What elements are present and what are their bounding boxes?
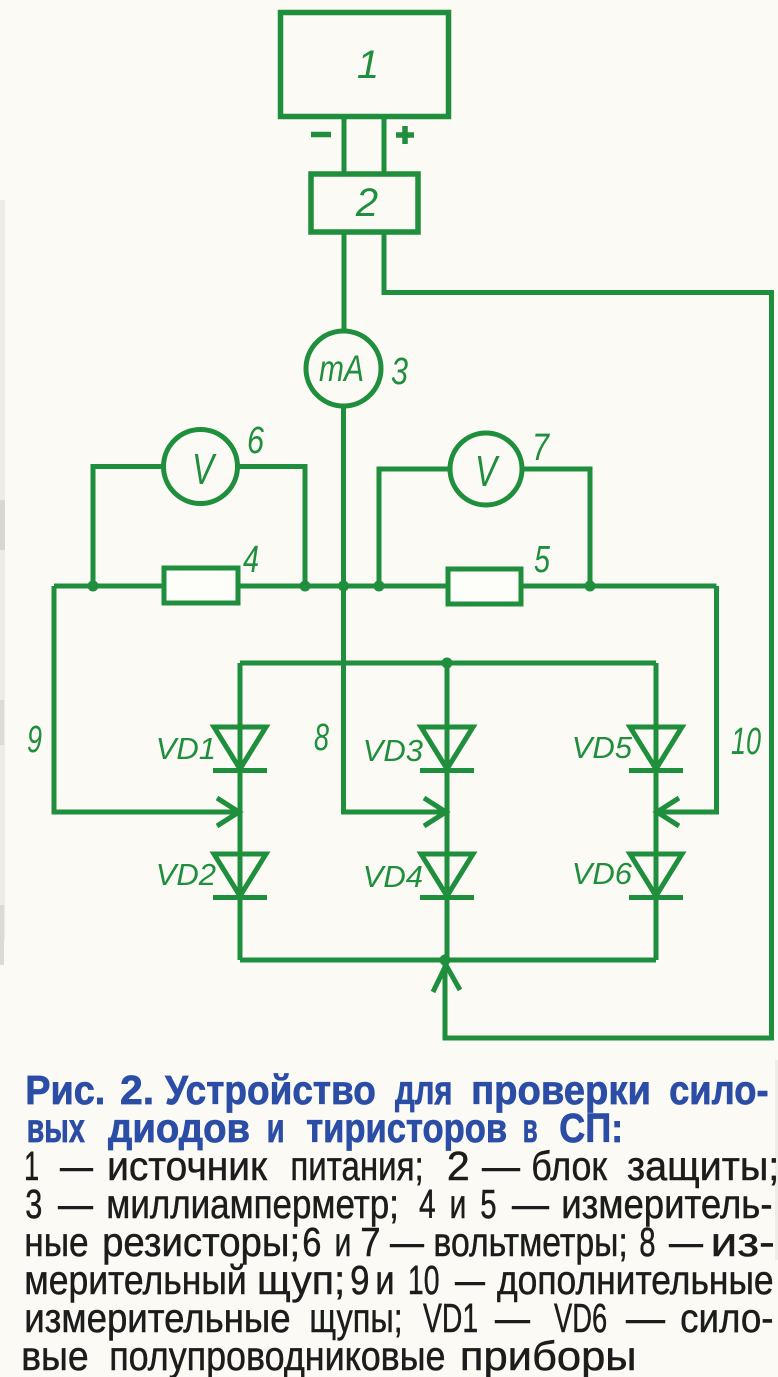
svg-text:сило-: сило-	[669, 1067, 769, 1113]
svg-text:3: 3	[391, 351, 408, 393]
svg-text:VD1: VD1	[156, 731, 216, 766]
svg-text:VD2: VD2	[156, 857, 216, 892]
svg-text:вые: вые	[21, 1333, 89, 1377]
svg-text:7: 7	[532, 427, 550, 469]
svg-text:4: 4	[243, 539, 259, 581]
svg-text:9: 9	[27, 719, 42, 761]
svg-text:сило-: сило-	[680, 1295, 773, 1341]
svg-text:VD6: VD6	[572, 856, 633, 891]
svg-text:приборы: приборы	[460, 1333, 637, 1377]
svg-text:V: V	[475, 447, 500, 496]
svg-text:VD3: VD3	[363, 733, 423, 768]
svg-text:полупроводниковые: полупроводниковые	[109, 1333, 445, 1377]
svg-text:2: 2	[355, 181, 378, 225]
svg-text:10: 10	[731, 721, 761, 763]
svg-text:5: 5	[534, 539, 551, 581]
svg-text:VD5: VD5	[572, 730, 633, 765]
svg-text:V: V	[192, 445, 217, 494]
svg-text:и: и	[267, 1105, 285, 1151]
svg-text:1: 1	[357, 43, 379, 87]
svg-text:mA: mA	[319, 348, 364, 389]
svg-text:6: 6	[247, 420, 265, 462]
svg-text:8: 8	[314, 717, 329, 759]
svg-text:VD4: VD4	[363, 859, 423, 894]
